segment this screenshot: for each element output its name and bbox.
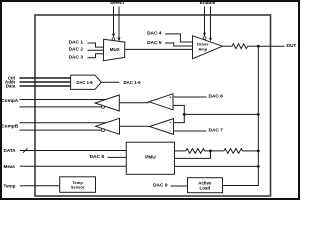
mux U1 [103, 39, 124, 60]
svg-text:Select: Select [110, 0, 125, 6]
svg-text:DAC 1-9: DAC 1-9 [124, 80, 142, 85]
node feedback junction [183, 113, 186, 116]
bubble CompB complement [102, 129, 105, 132]
wire comparator B + input to feedback [174, 114, 185, 122]
svg-text:DAC 1: DAC 1 [69, 40, 84, 46]
wire OUT vertical bus [257, 46, 259, 186]
node junction OUT [257, 45, 260, 48]
node junction R2/OUT [257, 150, 260, 153]
wire DAC 1-9 output [101, 81, 119, 83]
wire driver output [223, 45, 233, 47]
svg-text:PMU: PMU [145, 155, 156, 161]
svg-text:DAC 2: DAC 2 [69, 47, 84, 53]
wire PMU meas to OUT bus [175, 165, 259, 167]
wire comparator A - input to feedback [173, 105, 184, 114]
arrowhead select 1 [112, 34, 115, 38]
wire Data bus [20, 85, 71, 87]
wire DAC5 to driver [165, 43, 193, 46]
svg-text:DAC 6: DAC 6 [209, 94, 224, 100]
svg-text:CompB: CompB [1, 123, 19, 129]
svg-text:DUT: DUT [287, 43, 297, 49]
wire Meas to PMU [20, 165, 127, 167]
resistor PMU R2 [224, 149, 243, 154]
wire comparator A + input to DAC 6 [173, 96, 207, 98]
comparator B [150, 119, 174, 135]
wire comparator B - input to DAC 7 [174, 130, 207, 132]
svg-text:DAC 4: DAC 4 [147, 30, 162, 36]
buffer CompB output driver [96, 118, 120, 134]
wire R2 to OUT bus [243, 150, 259, 152]
wire resistor to OUT node [248, 45, 259, 47]
wire Temp to sensor [20, 185, 60, 187]
wire Enable line 1 [204, 7, 206, 34]
wire Addr bus [20, 81, 71, 83]
svg-text:CompA: CompA [1, 98, 19, 104]
arrowhead enable 2 [209, 38, 212, 42]
wire DAC 9 to active load [171, 185, 188, 187]
bubble on MUX select input [112, 38, 115, 41]
Temp Sensor block [60, 177, 96, 193]
buffer CompA output driver [95, 95, 119, 111]
wire DAC1 to MUX [88, 43, 104, 47]
node junction Meas/OUT [257, 165, 260, 168]
resistor driver series [232, 44, 248, 49]
svg-text:DAC 9: DAC 9 [153, 183, 168, 189]
DAC block DAC 1-9 [71, 75, 102, 89]
wire PMU sense to mid junction [175, 151, 211, 159]
svg-text:Sensor: Sensor [71, 184, 85, 189]
wire feedback to OUT bus [184, 113, 258, 115]
arrowhead enable 1 [203, 33, 206, 37]
node junction on OUT bus [257, 113, 260, 116]
wire Ctrl bus [20, 77, 71, 79]
wire comparatorB to buffer [120, 125, 150, 127]
svg-text:-: - [170, 104, 171, 108]
resistor PMU R1 [186, 149, 205, 154]
svg-text:Amp: Amp [198, 46, 207, 51]
svg-text:MUX: MUX [110, 47, 120, 52]
wire DAC2 to MUX [88, 49, 104, 51]
wire R1 to mid junction [205, 150, 224, 152]
svg-text:Load: Load [200, 186, 211, 191]
wire comparatorA to buffer [119, 102, 149, 104]
bus slash on DATA [23, 148, 28, 153]
svg-text:DAC 5: DAC 5 [147, 40, 162, 46]
wire MUX output to driver [125, 48, 193, 50]
wire DATA to PMU [20, 150, 127, 152]
PMU block [126, 142, 174, 174]
svg-text:DAC 3: DAC 3 [69, 54, 84, 60]
svg-text:DATA: DATA [4, 148, 17, 153]
wire CompA complement output [20, 106, 102, 108]
wire Enable line 2 [210, 7, 212, 39]
chip boundary rectangle [35, 15, 271, 196]
bubble CompA complement [102, 105, 105, 108]
comparator A [149, 94, 173, 110]
op-amp Driver Amp [193, 36, 223, 59]
wire active load to OUT bus [223, 185, 259, 187]
Active Load block [188, 178, 223, 193]
wire OUT to pin [258, 45, 284, 47]
wire CompB true output [20, 122, 107, 124]
svg-text:DAC 7: DAC 7 [209, 128, 224, 134]
wire PMU force output [175, 150, 186, 152]
svg-text:Meas: Meas [4, 164, 16, 169]
svg-text:Enable: Enable [200, 0, 216, 6]
wire DAC3 to MUX [88, 54, 104, 58]
svg-text:DAC 1-9: DAC 1-9 [76, 80, 93, 85]
bubble on driver enable input [203, 37, 206, 40]
wire CompA true output [20, 99, 106, 101]
outer frame [1, 1, 299, 199]
wire Select line 2 [118, 7, 120, 39]
wire CompB complement output [20, 129, 102, 131]
node mid junction [209, 150, 212, 153]
svg-text:Data: Data [6, 84, 16, 89]
svg-text:DAC 8: DAC 8 [90, 154, 105, 160]
wire DAC 8 to PMU [108, 156, 127, 158]
wire Select line 1 [113, 7, 115, 35]
arrowhead select 2 [118, 38, 121, 42]
svg-text:-: - [170, 129, 171, 133]
svg-text:+: + [169, 96, 171, 100]
wire DAC4 to driver [165, 34, 193, 42]
svg-text:+: + [170, 121, 172, 125]
svg-text:Temp: Temp [4, 183, 16, 188]
